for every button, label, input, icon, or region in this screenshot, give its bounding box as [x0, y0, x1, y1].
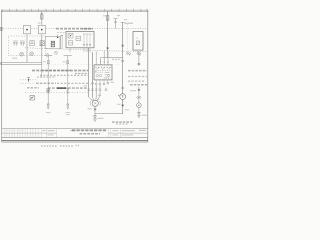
connector row C7 — [92, 82, 109, 85]
wire right column — [138, 51, 140, 65]
gauge G3 — [30, 41, 34, 46]
label HOT AT ALL TIMES — [56, 28, 93, 30]
label above flasher — [57, 31, 68, 33]
footer text — [41, 144, 80, 147]
ground G1 — [47, 104, 50, 109]
connector C12 — [138, 89, 141, 90]
cross mark T1 — [47, 91, 49, 93]
connector pair C6 — [137, 52, 141, 56]
sheet left border — [1, 11, 3, 143]
bulkhead dashed rail — [25, 48, 147, 52]
left bus lines — [2, 61, 42, 63]
antenna node — [27, 77, 30, 82]
connector C10 — [121, 87, 124, 88]
wire C1 down — [26, 34, 28, 62]
S2 pin stubs — [96, 80, 108, 83]
drawing title text — [72, 129, 107, 131]
flasher module box — [45, 35, 60, 49]
headlamp switch S3 — [133, 32, 143, 51]
fuse F2 — [107, 11, 109, 58]
lamp L2 — [30, 52, 34, 56]
label specks — [12, 16, 136, 110]
splice box — [47, 89, 50, 92]
motor M1 — [118, 94, 126, 100]
wire dashes row C — [20, 79, 36, 81]
dotted rail mid — [43, 63, 120, 65]
right legend rows — [128, 71, 147, 85]
fuse F1 top bar — [40, 13, 43, 15]
sheet bottom border — [2, 139, 148, 141]
wire right column lower — [138, 87, 140, 113]
connector box C2 — [38, 25, 45, 33]
label right of S2 — [112, 58, 121, 60]
title block cell texts — [5, 130, 75, 136]
legend text row 1 — [32, 70, 88, 72]
wire M2 down — [94, 107, 96, 116]
lamp L1 — [20, 52, 24, 56]
wire pair — [60, 35, 62, 49]
legend text row D — [20, 82, 88, 84]
dashed splice row — [25, 91, 88, 93]
harness T1 — [44, 56, 52, 104]
node B row label — [0, 62, 1, 65]
legend text row E — [27, 87, 88, 89]
sensor B1 — [137, 103, 142, 108]
resistor R1 hatched — [40, 41, 44, 46]
lamp L3 — [55, 51, 58, 54]
note text bottom — [112, 121, 133, 123]
connector pair C13 — [137, 97, 141, 99]
ground labels — [46, 113, 70, 115]
wire dashed drop — [127, 24, 129, 51]
connector pin — [46, 53, 49, 57]
fuse F1 — [41, 11, 43, 25]
legend text row 2 — [40, 74, 88, 76]
ruler ticks — [2, 9, 147, 12]
connector C9 — [121, 105, 124, 106]
relay K1 pin stubs — [70, 48, 90, 52]
node A row label — [0, 27, 2, 30]
ground G4 — [137, 112, 147, 118]
relay module K1 — [66, 31, 94, 47]
wire C2 down — [41, 34, 43, 64]
title block dividers — [4, 129, 120, 138]
washer pump M2 — [90, 100, 100, 107]
connector C3b — [106, 48, 109, 49]
connector C11 — [138, 63, 141, 64]
ignition switch S2 — [94, 51, 123, 80]
title block — [2, 129, 148, 138]
sheet right border — [147, 11, 149, 143]
connector on T2 — [67, 89, 69, 90]
cross mark T2 — [67, 91, 69, 93]
ground G5 — [93, 116, 103, 121]
wire bottom run — [95, 113, 123, 115]
label above S3 — [125, 23, 134, 24]
connector C8 — [94, 109, 97, 110]
harness T2 — [64, 56, 72, 104]
wire C2 tail — [41, 65, 43, 78]
connector box C1 — [23, 25, 30, 33]
ground G2 — [67, 104, 70, 109]
connector C4 — [121, 60, 124, 61]
connector pin — [105, 88, 107, 91]
gauge G1 — [13, 41, 18, 46]
wire W1 main right drop — [121, 22, 125, 113]
connector C3 — [121, 45, 124, 46]
right cells text — [113, 130, 147, 136]
connector pair C5 — [127, 52, 131, 56]
instrument cluster dashed box — [8, 36, 46, 56]
inline connectors on drops — [88, 89, 102, 90]
sheet top border — [1, 9, 148, 11]
fuse F3 — [114, 19, 118, 29]
resistor R3 hatched — [30, 95, 34, 100]
wire drops to splice — [89, 48, 100, 103]
wire dashed feed rail — [3, 27, 147, 29]
gauge G2 — [20, 41, 25, 46]
